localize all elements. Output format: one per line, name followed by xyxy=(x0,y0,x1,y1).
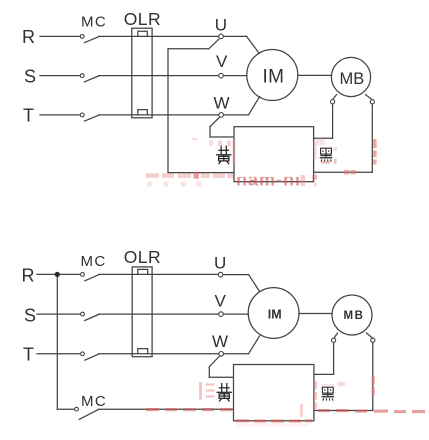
svg-text:W: W xyxy=(214,94,230,113)
svg-text:MB: MB xyxy=(344,310,365,322)
svg-text:IM: IM xyxy=(268,307,282,321)
svg-text:T: T xyxy=(23,106,34,126)
svg-text:MB: MB xyxy=(340,70,365,88)
svg-text:W: W xyxy=(212,332,228,351)
svg-text:OLR: OLR xyxy=(124,9,161,29)
svg-text:V: V xyxy=(215,292,227,311)
svg-text:U: U xyxy=(214,254,226,273)
svg-text:MC: MC xyxy=(81,393,107,410)
svg-text:IM: IM xyxy=(263,66,285,87)
svg-text:R: R xyxy=(22,27,35,47)
svg-text:MC: MC xyxy=(81,253,107,270)
svg-text:S: S xyxy=(24,67,36,87)
svg-text:T: T xyxy=(23,345,34,365)
svg-text:OLR: OLR xyxy=(124,247,161,267)
svg-text:R: R xyxy=(22,266,35,286)
svg-text:U: U xyxy=(215,16,227,35)
svg-text:S: S xyxy=(24,306,36,326)
svg-text:MC: MC xyxy=(81,14,107,31)
svg-text:V: V xyxy=(216,52,228,71)
